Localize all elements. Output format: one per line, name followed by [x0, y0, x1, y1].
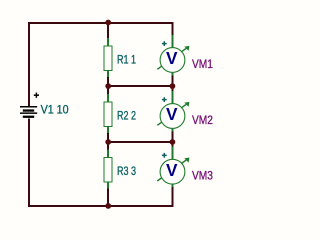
- label V1 10: [41, 103, 69, 117]
- battery V1 plus polarity mark: [34, 93, 39, 98]
- junction node top (R1 top / V1 +): [105, 20, 111, 26]
- svg-text:R3 3: R3 3: [117, 164, 136, 178]
- svg-text:VM2: VM2: [192, 113, 213, 127]
- svg-text:R2 2: R2 2: [117, 108, 136, 122]
- svg-text:R1 1: R1 1: [117, 52, 136, 66]
- label R2 2: [117, 108, 136, 122]
- wire left rail lower (V1 - to bottom rung): [28, 118, 30, 207]
- resistor R1: [104, 38, 112, 77]
- wire top rung (node between V1+ and R1 / VM1): [28, 22, 174, 24]
- svg-text:VM3: VM3: [192, 169, 213, 183]
- voltmeter VM3 plus polarity mark: [162, 153, 167, 158]
- resistor R2: [104, 94, 112, 133]
- svg-text:VM1: VM1: [192, 57, 213, 71]
- resistor R3: [104, 150, 112, 189]
- label VM3: [192, 169, 213, 183]
- wire middle rail segments (through R1,R2,R3): [107, 23, 109, 206]
- wire rung 3 (node R2/R3 to VM2/VM3): [108, 141, 173, 143]
- label VM1: [192, 57, 213, 71]
- wire right rail segments (through VM1,VM2,VM3): [172, 22, 174, 207]
- wire rung 2 (node R1/R2 to VM1/VM2): [108, 85, 173, 87]
- junction node bottom (R3 bottom / V1 -): [105, 203, 111, 209]
- junction node rung2 left: [105, 83, 111, 89]
- battery V1: [20, 106, 37, 118]
- voltmeter VM2: [157, 91, 189, 132]
- svg-text:V: V: [166, 104, 178, 124]
- wire bottom rung: [28, 205, 174, 207]
- voltmeter VM3: [157, 147, 189, 188]
- svg-text:V: V: [166, 160, 178, 180]
- junction node rung3 left: [105, 139, 111, 145]
- junction node rung2 right: [170, 83, 176, 89]
- voltmeter VM2 plus polarity mark: [162, 97, 167, 102]
- svg-text:V1 10: V1 10: [41, 103, 69, 117]
- voltmeter VM1 plus polarity mark: [162, 41, 167, 46]
- label R1 1: [117, 52, 136, 66]
- voltmeter VM1: [157, 35, 189, 76]
- label R3 3: [117, 164, 136, 178]
- svg-text:V: V: [166, 48, 178, 68]
- label VM2: [192, 113, 213, 127]
- wire left rail upper (V1 + to top rung): [28, 22, 30, 106]
- junction node rung3 right: [170, 139, 176, 145]
